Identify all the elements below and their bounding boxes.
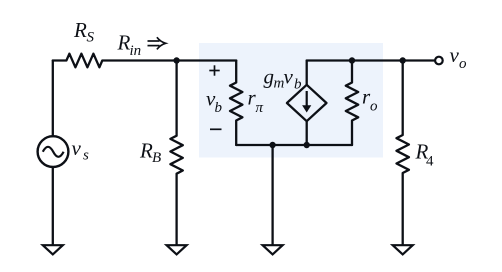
svg-text:π: π: [256, 100, 264, 116]
svg-text:g: g: [264, 65, 275, 89]
node dot: emitter rail tap: [269, 142, 275, 148]
label v_b: [206, 87, 223, 117]
arrow of R_in (double arrow): [148, 37, 166, 49]
svg-text:R: R: [139, 138, 153, 162]
voltage source V_s (circle with sine): [38, 136, 69, 167]
label R_S: [73, 18, 95, 46]
ground (below R_4): [393, 245, 413, 254]
node dot: dependent source bottom: [304, 142, 310, 148]
label v_s: [72, 136, 90, 164]
svg-text:S: S: [87, 30, 95, 46]
node dot: input node B: [173, 57, 179, 63]
svg-text:in: in: [130, 43, 142, 59]
resistor r_o (vertical, in box): [346, 61, 358, 146]
output terminal v_o (open circle): [435, 57, 443, 65]
wire: below source v_s to ground: [52, 167, 54, 246]
resistor R_B (vertical): [170, 61, 182, 247]
label r_pi: [248, 86, 264, 116]
resistor R_S: [53, 54, 236, 68]
svg-text:b: b: [294, 77, 302, 93]
svg-text:v: v: [284, 65, 294, 89]
wire: left vertical from top corner down to source v_s: [52, 61, 54, 137]
ground (below R_B): [167, 245, 187, 254]
label - (v_b polarity): [210, 128, 222, 130]
label v_o: [450, 43, 468, 72]
shaded transistor-model box: [199, 43, 383, 158]
dependent current source g_m*v_b (diamond with down arrow): [287, 85, 327, 121]
svg-text:R: R: [117, 31, 131, 55]
label R_B: [139, 138, 161, 166]
arrowhead of dependent source: [302, 105, 311, 112]
node dot: r_o top: [349, 57, 355, 63]
svg-text:4: 4: [426, 154, 434, 170]
wire: emitter rail to ground: [271, 145, 273, 246]
label R_4: [415, 140, 435, 170]
label r_o: [362, 85, 378, 115]
svg-text:v: v: [450, 43, 460, 67]
resistor r_pi (vertical, in box): [230, 61, 242, 146]
ground (below emitter rail): [263, 245, 283, 254]
label + (v_b polarity): [209, 65, 219, 75]
label g_m v_b: [264, 65, 303, 93]
wire: bottom rail of model box: [236, 144, 352, 146]
node dot: output node above R_4: [400, 57, 406, 63]
svg-text:o: o: [459, 56, 467, 72]
svg-text:R: R: [73, 18, 87, 42]
label R_in: [117, 31, 142, 60]
svg-text:b: b: [215, 100, 223, 116]
wire: top-right from dependent source top to output terminal: [307, 59, 435, 61]
svg-text:v: v: [72, 136, 82, 160]
svg-text:B: B: [152, 150, 161, 166]
ground (below v_s): [43, 245, 63, 254]
svg-text:s: s: [83, 148, 89, 164]
resistor R_4 (vertical): [397, 61, 409, 247]
dependent source leads: [306, 61, 308, 86]
svg-text:o: o: [370, 99, 378, 115]
